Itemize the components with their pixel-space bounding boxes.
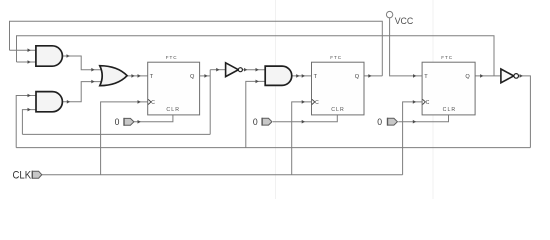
arrow FF3 T pin bbox=[413, 74, 416, 78]
arrow Q2 output bbox=[368, 74, 371, 78]
arrow FF2 T pin bbox=[302, 74, 305, 78]
svg-text:Q: Q bbox=[190, 74, 195, 80]
arrow AND1 input B bbox=[28, 60, 31, 64]
node constant 0 for FF1 bbox=[115, 116, 134, 127]
wire Q2 output bbox=[364, 75, 382, 77]
svg-text:CLR: CLR bbox=[443, 107, 457, 113]
arrow OR input B bbox=[91, 80, 94, 84]
wire Q1 lower bus bbox=[22, 133, 210, 135]
arrow FF3 CLR wire bbox=[413, 120, 416, 124]
wire Q2 feedback top bus bbox=[10, 21, 383, 76]
arrow AND3 input A bbox=[256, 68, 259, 72]
wire constant 0 to FF3 CLR bbox=[398, 115, 448, 122]
wire AND3 output to FF2 T input bbox=[292, 75, 312, 77]
arrow inverter U2 output bbox=[520, 74, 523, 78]
wire AND1 input B stub bbox=[17, 61, 37, 63]
arrow FF2 CLR wire bbox=[302, 120, 305, 124]
arrow AND3 input B bbox=[256, 80, 259, 84]
wire FF1 clock from CLK bus bbox=[101, 102, 148, 175]
svg-text:CLK: CLK bbox=[13, 169, 32, 181]
and-gate U6 middle bbox=[265, 66, 292, 85]
wire inverter U1 output to AND3 input A bbox=[242, 69, 265, 71]
wire Q3 feedback top bus bbox=[17, 36, 495, 76]
wire AND2 output to OR input B bbox=[62, 82, 101, 102]
node CLK input connector bbox=[13, 169, 42, 181]
svg-text:T: T bbox=[150, 74, 154, 80]
arrow OR input A bbox=[91, 68, 94, 72]
svg-text:0: 0 bbox=[253, 116, 258, 127]
wire AND1 input A stub bbox=[10, 49, 37, 51]
wire inverter U2 output down bbox=[519, 76, 531, 148]
node constant 0 for FF3 bbox=[377, 116, 397, 127]
arrow inverter U1 input bbox=[216, 68, 219, 72]
arrow AND1 input A bbox=[28, 48, 31, 52]
wire constant 0 to FF2 CLR bbox=[273, 115, 337, 122]
or-gate U5 bbox=[100, 66, 127, 86]
node constant 0 for FF2 bbox=[253, 116, 272, 127]
svg-text:VCC: VCC bbox=[395, 16, 414, 26]
arrow AND2 input B bbox=[28, 108, 31, 112]
arrow FF2 clock pin bbox=[302, 100, 305, 104]
svg-text:0: 0 bbox=[377, 116, 382, 127]
inverter U2 bbox=[501, 69, 519, 83]
svg-text:Q: Q bbox=[355, 74, 360, 80]
power VCC bbox=[386, 11, 414, 26]
flip-flop U8 FTC bbox=[312, 55, 365, 115]
arrow OR output bbox=[131, 74, 134, 78]
and-gate U3 top-left bbox=[36, 46, 62, 66]
arrow Q3 output bbox=[480, 74, 483, 78]
svg-text:T: T bbox=[424, 74, 428, 80]
wire Q1 branch vertical bbox=[209, 70, 211, 135]
wire OR output to FF1 T input bbox=[127, 75, 148, 77]
inverter U1 bbox=[226, 63, 243, 77]
arrow FF1 CLR wire bbox=[138, 120, 141, 124]
wire CLK bus bbox=[42, 174, 403, 176]
wire VCC to FF3 T input bbox=[390, 18, 423, 76]
arrow AND2 input A bbox=[28, 94, 31, 98]
svg-text:C: C bbox=[426, 100, 430, 106]
arrow AND2 output bbox=[67, 100, 70, 104]
arrow FF1 T pin bbox=[138, 74, 141, 78]
wire constant 0 to FF1 CLR bbox=[134, 115, 173, 122]
svg-text:Q: Q bbox=[465, 74, 470, 80]
svg-text:FTC: FTC bbox=[166, 55, 178, 60]
arrow AND1 output bbox=[67, 54, 70, 58]
arrow AND3 output bbox=[296, 74, 299, 78]
wire inverter U1 input bbox=[210, 69, 225, 71]
arrow inverter U1 output bbox=[244, 68, 247, 72]
wire Q3 output to inverter U2 bbox=[475, 75, 501, 77]
svg-text:C: C bbox=[315, 100, 319, 106]
wire Q1 output bbox=[200, 75, 211, 77]
wire FF2 clock from CLK bus bbox=[292, 102, 312, 175]
svg-text:FTC: FTC bbox=[330, 55, 342, 60]
wire AND1 output to OR input A bbox=[62, 56, 101, 70]
arrow Q1 output bbox=[204, 74, 207, 78]
wire AND2 input A from lower bus bbox=[16, 96, 36, 148]
wire AND3 input B from lower bus bbox=[246, 81, 266, 147]
svg-text:C: C bbox=[151, 100, 155, 106]
flip-flop U7 FTC bbox=[148, 55, 200, 115]
svg-text:0: 0 bbox=[115, 116, 120, 127]
wire AND2 input B from lower bus bbox=[22, 110, 36, 135]
svg-text:CLR: CLR bbox=[331, 107, 345, 113]
flip-flop U9 FTC bbox=[422, 55, 475, 115]
wire FF3 clock from CLK bus bbox=[403, 102, 423, 175]
svg-text:CLR: CLR bbox=[166, 107, 180, 113]
wire NOT-Q3 lower bus bbox=[16, 147, 530, 149]
arrow FF1 clock pin bbox=[138, 100, 141, 104]
arrow FF3 clock pin bbox=[413, 100, 416, 104]
svg-text:FTC: FTC bbox=[441, 55, 453, 60]
svg-text:T: T bbox=[314, 74, 318, 80]
and-gate U4 bottom-left bbox=[36, 92, 62, 112]
